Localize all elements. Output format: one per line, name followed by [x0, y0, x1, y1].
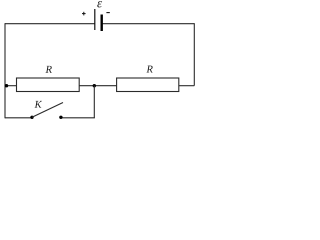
wire bottom left segment — [5, 117, 32, 119]
wire top left segment — [5, 23, 95, 25]
label minus sign — [106, 12, 109, 14]
resistor R (left) body — [17, 78, 80, 92]
resistor R (right) body — [117, 78, 179, 92]
wire middle left stub — [5, 85, 17, 87]
label R left — [46, 66, 52, 73]
wire left vertical — [4, 23, 6, 118]
label K — [34, 101, 42, 108]
switch K: blade — [32, 103, 63, 118]
node junction left — [5, 84, 8, 87]
wire between resistors — [79, 85, 116, 87]
switch K: left terminal — [30, 116, 33, 119]
wire bottom right segment — [61, 117, 95, 119]
battery cell E: thick negative plate — [100, 15, 102, 32]
label epsilon (EMF) — [97, 1, 102, 7]
battery cell E: thin positive plate — [94, 9, 96, 30]
label plus sign — [82, 12, 86, 16]
wire right vertical — [193, 23, 195, 85]
switch K: right terminal — [59, 116, 62, 119]
wire middle right stub — [179, 85, 195, 87]
wire top right segment — [102, 23, 195, 25]
label R right — [146, 66, 152, 73]
node junction middle — [93, 84, 96, 87]
wire branch vertical (middle node down) — [93, 86, 95, 118]
